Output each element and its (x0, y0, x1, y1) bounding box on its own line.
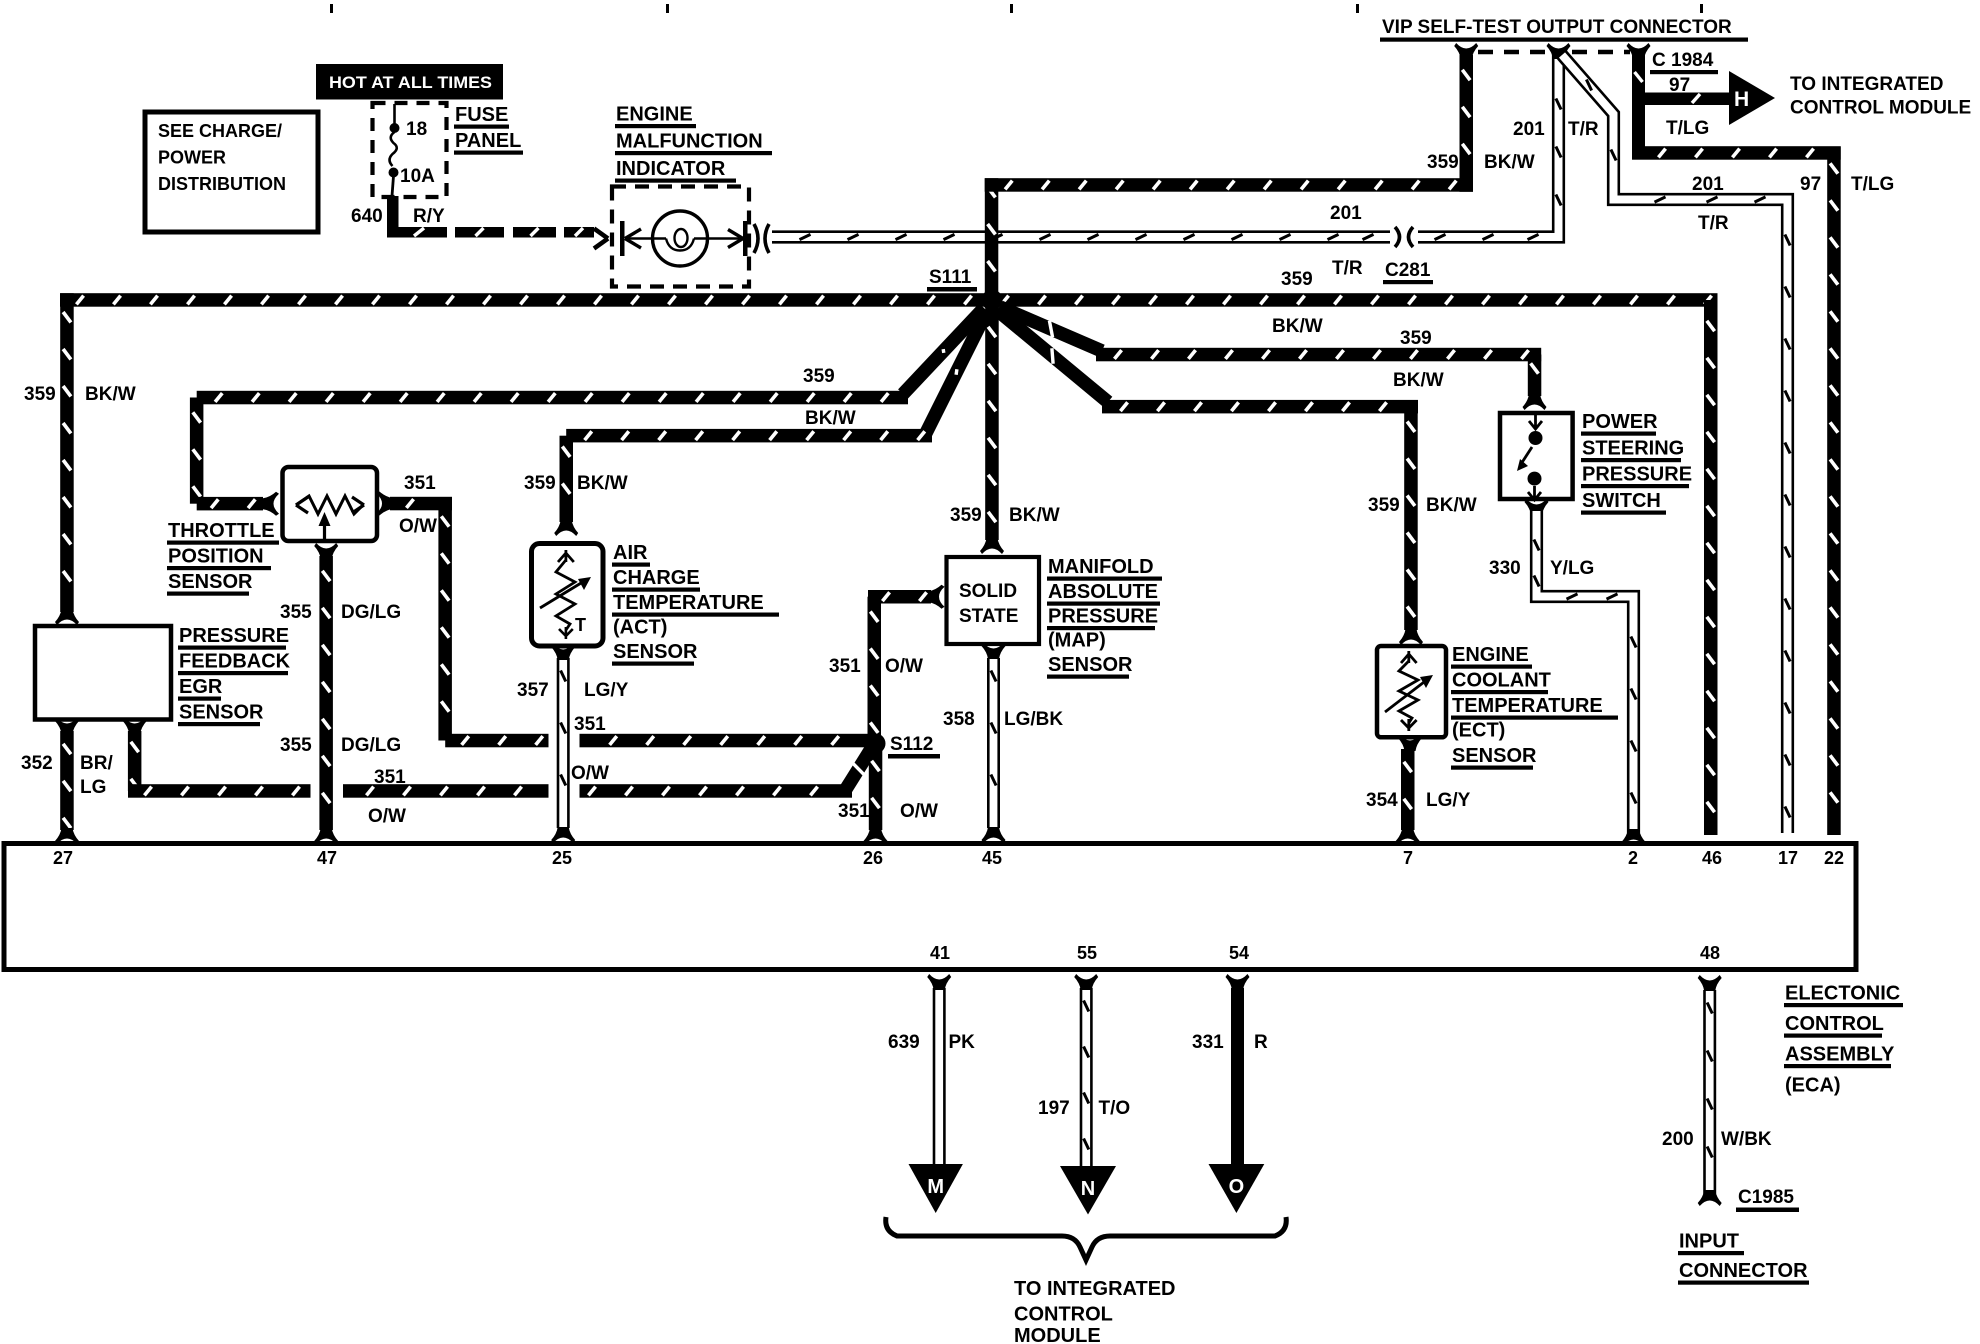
engine coolant temperature sensor box (1377, 646, 1446, 737)
svg-text:INDICATOR: INDICATOR (616, 158, 726, 180)
arrow N to integrated control module (1060, 1166, 1116, 1215)
lamp bulb symbol (653, 211, 708, 266)
svg-text:359: 359 (24, 384, 56, 405)
svg-text:359: 359 (1281, 269, 1313, 290)
wire 359 BK/W S111 branch to throttle position sensor (903, 308, 984, 394)
svg-text:354: 354 (1366, 790, 1398, 811)
svg-text:359: 359 (950, 505, 982, 526)
svg-text:S112: S112 (890, 734, 933, 755)
svg-text:LG/BK: LG/BK (1004, 709, 1063, 730)
svg-text:7: 7 (1403, 848, 1413, 868)
svg-text:97: 97 (1800, 174, 1821, 195)
VIP terminal 1 connector (1454, 43, 1478, 59)
arrow M to integrated control module (909, 1164, 963, 1213)
svg-text:C1985: C1985 (1738, 1187, 1794, 1208)
svg-text:DG/LG: DG/LG (341, 602, 401, 623)
svg-text:MANIFOLD: MANIFOLD (1048, 556, 1154, 578)
VIP connector dashed line (1478, 50, 1548, 55)
svg-text:201: 201 (1692, 174, 1724, 195)
wire 97 T/LG branch to H arrow (1638, 93, 1731, 106)
wire 201 T/R from VIP terminal 2 to ECA pin 17 (1562, 55, 1790, 833)
svg-text:BK/W: BK/W (1393, 370, 1444, 391)
wire 355 DG/LG from TPS to ECA pin 47 (314, 543, 338, 559)
svg-text:197: 197 (1038, 1098, 1070, 1119)
svg-text:BK/W: BK/W (1426, 495, 1477, 516)
wire 359 BK/W S111 branch to power steering switch (1000, 307, 1102, 351)
svg-text:(MAP): (MAP) (1048, 630, 1106, 652)
indicator left connector (594, 229, 608, 249)
svg-text:DISTRIBUTION: DISTRIBUTION (158, 174, 286, 194)
wire 97 T/LG to ECA pin 22 (1632, 146, 1841, 160)
svg-text:201: 201 (1513, 119, 1545, 140)
svg-text:CONTROL MODULE: CONTROL MODULE (1790, 98, 1971, 119)
svg-text:(ECT): (ECT) (1452, 720, 1505, 742)
svg-text:47: 47 (317, 848, 337, 868)
svg-text:41: 41 (930, 943, 950, 963)
svg-text:25: 25 (552, 848, 572, 868)
svg-text:SENSOR: SENSOR (168, 571, 253, 593)
svg-text:2: 2 (1628, 848, 1638, 868)
svg-text:BK/W: BK/W (805, 408, 856, 429)
svg-text:640: 640 (351, 206, 383, 227)
wire 351 O/W from TPS to S112 (377, 492, 393, 516)
svg-text:N: N (1081, 1178, 1095, 1200)
svg-text:ABSOLUTE: ABSOLUTE (1048, 581, 1158, 603)
svg-text:(ECA): (ECA) (1785, 1075, 1841, 1097)
engine malfunction indicator dashed box (612, 187, 749, 287)
svg-text:DG/LG: DG/LG (341, 735, 401, 756)
svg-text:359: 359 (1368, 495, 1400, 516)
svg-text:BR/: BR/ (80, 753, 113, 774)
svg-text:LG: LG (80, 777, 106, 798)
svg-text:T/R: T/R (1698, 213, 1729, 234)
svg-text:ELECTONIC: ELECTONIC (1785, 983, 1900, 1005)
throttle position sensor box (283, 467, 378, 541)
wire 351 O/W from EGR long run to S112 (123, 718, 147, 734)
PS switch symbol (1529, 415, 1542, 429)
svg-text:CONNECTOR: CONNECTOR (1679, 1260, 1808, 1282)
svg-text:BK/W: BK/W (577, 473, 628, 494)
fuse F symbol with 18 / 10A (393, 104, 396, 124)
svg-text:355: 355 (280, 735, 312, 756)
svg-text:17: 17 (1778, 848, 1798, 868)
manifold absolute pressure sensor box (947, 557, 1040, 644)
svg-text:W/BK: W/BK (1721, 1129, 1772, 1150)
power steering pressure switch box (1500, 413, 1573, 499)
svg-text:SENSOR: SENSOR (1048, 654, 1133, 676)
svg-text:359: 359 (1427, 152, 1459, 173)
svg-text:AIR: AIR (613, 542, 648, 564)
brace under arrows (886, 1217, 1287, 1260)
svg-text:T/O: T/O (1099, 1098, 1131, 1119)
wire 359 BK/W S111 branch to ACT sensor (926, 311, 987, 433)
VIP terminal 2 connector (1547, 43, 1571, 59)
wire 197 T/O from pin 55 (1074, 974, 1098, 990)
svg-text:SENSOR: SENSOR (179, 702, 264, 724)
svg-text:Y/LG: Y/LG (1550, 558, 1594, 579)
svg-text:BK/W: BK/W (1272, 316, 1323, 337)
note box SEE CHARGE/POWER DISTRIBUTION (145, 112, 318, 232)
electronic control assembly ECA box (4, 844, 1856, 970)
ECT thermistor symbol (1401, 651, 1417, 663)
svg-text:FEEDBACK: FEEDBACK (179, 651, 291, 673)
svg-text:SWITCH: SWITCH (1582, 490, 1661, 512)
svg-text:M: M (927, 1176, 944, 1198)
svg-text:HOT AT ALL TIMES: HOT AT ALL TIMES (329, 74, 492, 92)
svg-text:TO INTEGRATED: TO INTEGRATED (1014, 1278, 1175, 1300)
svg-text:18: 18 (406, 119, 427, 140)
wire 330 Y/LG from PS switch to ECA pin 2 (1525, 499, 1549, 515)
pressure feedback EGR sensor box (35, 626, 171, 720)
svg-text:201: 201 (1330, 203, 1362, 224)
wire 359 BK/W S111 branch to ECT sensor (997, 310, 1108, 402)
svg-text:T: T (575, 615, 586, 635)
svg-text:26: 26 (863, 848, 883, 868)
wire 359 BK/W S111 right to ECA pin 46 (1704, 300, 1718, 835)
svg-text:639: 639 (888, 1032, 920, 1053)
svg-text:SENSOR: SENSOR (1452, 745, 1537, 767)
wire 639 PK from pin 41 (927, 974, 951, 990)
svg-text:358: 358 (943, 709, 975, 730)
svg-text:46: 46 (1702, 848, 1722, 868)
wire 357 LG/Y from ACT to ECA pin 25 (551, 644, 575, 660)
svg-text:PK: PK (949, 1032, 976, 1053)
svg-text:O/W: O/W (399, 516, 437, 537)
svg-text:PRESSURE: PRESSURE (179, 625, 289, 647)
svg-text:54: 54 (1229, 943, 1249, 963)
svg-text:SEE CHARGE/: SEE CHARGE/ (158, 121, 282, 141)
connector C281 symbol (1395, 227, 1413, 247)
svg-text:PRESSURE: PRESSURE (1048, 606, 1158, 628)
svg-text:ENGINE: ENGINE (616, 104, 693, 126)
svg-text:357: 357 (517, 680, 549, 701)
svg-text:EGR: EGR (179, 676, 223, 698)
svg-text:SENSOR: SENSOR (613, 641, 698, 663)
svg-text:351: 351 (374, 767, 406, 788)
svg-text:STATE: STATE (959, 606, 1018, 627)
fuse panel dashed box (373, 103, 447, 197)
wire 351 O/W from S112 up to MAP sensor (868, 597, 882, 740)
svg-text:PRESSURE: PRESSURE (1582, 464, 1692, 486)
ACT thermistor symbol (558, 550, 574, 562)
splice node S111 (982, 290, 1003, 311)
wire 359 BK/W from S111 up/right to VIP terminal 1 (985, 178, 999, 300)
svg-text:(ACT): (ACT) (613, 617, 667, 639)
svg-text:THROTTLE: THROTTLE (168, 520, 275, 542)
svg-text:C 1984: C 1984 (1652, 50, 1714, 71)
wire 359 BK/W S111 down to MAP sensor (985, 306, 999, 540)
svg-text:ENGINE: ENGINE (1452, 644, 1529, 666)
page tick marks (330, 4, 333, 13)
svg-text:LG/Y: LG/Y (584, 680, 629, 701)
svg-text:48: 48 (1700, 943, 1720, 963)
svg-text:355: 355 (280, 602, 312, 623)
svg-text:R: R (1254, 1032, 1268, 1053)
svg-text:O/W: O/W (571, 763, 609, 784)
svg-text:O: O (1229, 1176, 1245, 1198)
svg-text:359: 359 (1400, 328, 1432, 349)
svg-text:TO INTEGRATED: TO INTEGRATED (1790, 74, 1943, 95)
svg-text:TEMPERATURE: TEMPERATURE (613, 592, 764, 614)
svg-text:FUSE: FUSE (455, 104, 508, 126)
svg-text:BK/W: BK/W (1484, 152, 1535, 173)
wire 351 O/W from S112 down to ECA pin 26 (869, 750, 883, 830)
svg-text:359: 359 (524, 473, 556, 494)
svg-text:INPUT: INPUT (1679, 1231, 1739, 1253)
wire 352 BR/LG from EGR to ECA pin 27 (55, 718, 79, 734)
svg-text:LG/Y: LG/Y (1426, 790, 1471, 811)
svg-text:O/W: O/W (368, 806, 406, 827)
svg-text:351: 351 (574, 714, 606, 735)
wire 97 T/LG from VIP terminal 3 down (1632, 55, 1645, 159)
svg-text:45: 45 (982, 848, 1002, 868)
arrow H to integrated control module (1729, 71, 1775, 125)
svg-text:O/W: O/W (885, 656, 923, 677)
svg-text:COOLANT: COOLANT (1452, 670, 1551, 692)
svg-text:MALFUNCTION: MALFUNCTION (616, 131, 763, 153)
svg-text:H: H (1734, 88, 1749, 111)
svg-text:TEMPERATURE: TEMPERATURE (1452, 695, 1603, 717)
svg-text:22: 22 (1824, 848, 1844, 868)
svg-text:351: 351 (838, 801, 870, 822)
svg-text:359: 359 (803, 366, 835, 387)
svg-text:CONTROL: CONTROL (1785, 1013, 1884, 1035)
svg-text:SOLID: SOLID (959, 581, 1017, 602)
svg-text:MODULE: MODULE (1014, 1325, 1101, 1344)
wire 359 BK/W left vertical to EGR sensor (60, 293, 73, 612)
wire 331 R from pin 54 (1226, 974, 1250, 990)
svg-text:BK/W: BK/W (1009, 505, 1060, 526)
svg-text:POWER: POWER (1582, 411, 1658, 433)
svg-text:351: 351 (829, 656, 861, 677)
wire 201 T/R from indicator through C281 to VIP connector (772, 52, 1561, 240)
svg-text:C281: C281 (1385, 260, 1431, 281)
svg-text:97: 97 (1669, 75, 1690, 96)
arrow O to integrated control module (1209, 1164, 1265, 1213)
svg-text:27: 27 (53, 848, 73, 868)
svg-text:330: 330 (1489, 558, 1521, 579)
air charge temperature sensor box (532, 544, 604, 647)
svg-text:PANEL: PANEL (455, 130, 521, 152)
wire 358 LG/BK from MAP to ECA pin 45 (982, 643, 1006, 659)
svg-text:T/LG: T/LG (1851, 174, 1894, 195)
svg-text:BK/W: BK/W (85, 384, 136, 405)
svg-text:STEERING: STEERING (1582, 438, 1684, 460)
svg-text:CONTROL: CONTROL (1014, 1304, 1113, 1326)
VIP terminal 3 connector (1627, 43, 1651, 59)
svg-text:352: 352 (21, 753, 53, 774)
svg-text:CHARGE: CHARGE (613, 567, 700, 589)
svg-text:VIP SELF-TEST OUTPUT CONNEC: VIP SELF-TEST OUTPUT CONNECTOR (1382, 17, 1732, 38)
svg-text:S111: S111 (929, 267, 972, 288)
svg-text:O/W: O/W (900, 801, 938, 822)
svg-text:331: 331 (1192, 1032, 1224, 1053)
wire 354 LG/Y from ECT to ECA pin 7 (1398, 735, 1422, 751)
TPS potentiometer symbol (296, 497, 308, 513)
svg-text:POSITION: POSITION (168, 546, 264, 568)
svg-text:T/R: T/R (1332, 258, 1363, 279)
indicator right connector (728, 230, 743, 248)
svg-text:T/LG: T/LG (1666, 118, 1709, 139)
splice node S112 (866, 734, 886, 754)
svg-text:55: 55 (1077, 943, 1097, 963)
svg-text:T/R: T/R (1568, 119, 1599, 140)
svg-text:ASSEMBLY: ASSEMBLY (1785, 1044, 1895, 1066)
wire 200 W/BK from pin 48 to C1985 (1698, 975, 1722, 991)
wire 640 R/Y from fuse (dashed hatched) (387, 196, 399, 230)
svg-text:351: 351 (404, 473, 436, 494)
svg-text:R/Y: R/Y (413, 206, 445, 227)
svg-text:200: 200 (1662, 1129, 1694, 1150)
wire 359 BK/W main horizontal bus (60, 293, 1718, 307)
HOT AT ALL TIMES banner (316, 64, 503, 100)
svg-text:10A: 10A (400, 166, 435, 187)
svg-text:POWER: POWER (158, 148, 226, 168)
